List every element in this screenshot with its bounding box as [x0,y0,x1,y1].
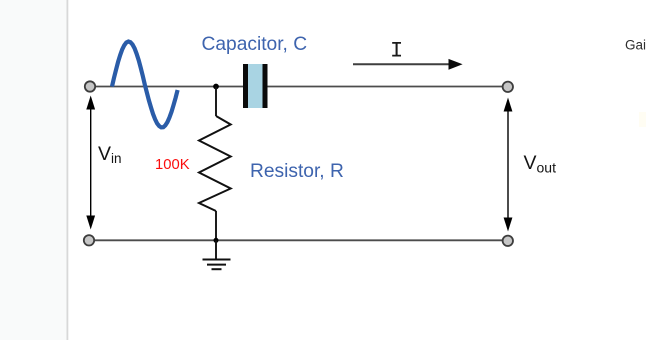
wire bottom [95,239,503,241]
left sidebar panel [0,0,67,340]
Vin measurement arrow [86,96,95,230]
svg-text:Vin: Vin [98,143,122,166]
wire resistor top lead [215,87,217,117]
wire resistor bottom lead [215,211,217,240]
wire top right segment [268,86,503,88]
ground stub wire [215,240,217,259]
svg-text:Vout: Vout [524,152,557,176]
svg-text:Capacitor, C: Capacitor, C [202,34,308,55]
capacitor C right plate [263,64,268,108]
ground symbol [203,260,231,270]
sine wave source [112,42,178,128]
capacitor C body fill [245,64,265,108]
terminal bottom left [84,235,94,245]
terminal top left [85,81,95,91]
node A top junction dot [213,84,219,90]
terminal bottom right [503,236,513,246]
terminal top right [503,82,513,92]
svg-text:Resistor, R: Resistor, R [250,161,344,182]
resistor R zigzag [199,116,231,211]
node B bottom junction dot [214,238,219,243]
sidebar divider line [67,0,69,340]
current I arrow [353,59,463,70]
Vout measurement arrow [504,98,513,232]
faint graph edge fragment right [639,112,646,127]
svg-text:100K: 100K [155,157,190,173]
capacitor C left plate [243,64,248,108]
svg-text:I: I [390,39,403,64]
wire top left segment [96,86,244,88]
svg-text:Gain: Gain [625,37,646,52]
